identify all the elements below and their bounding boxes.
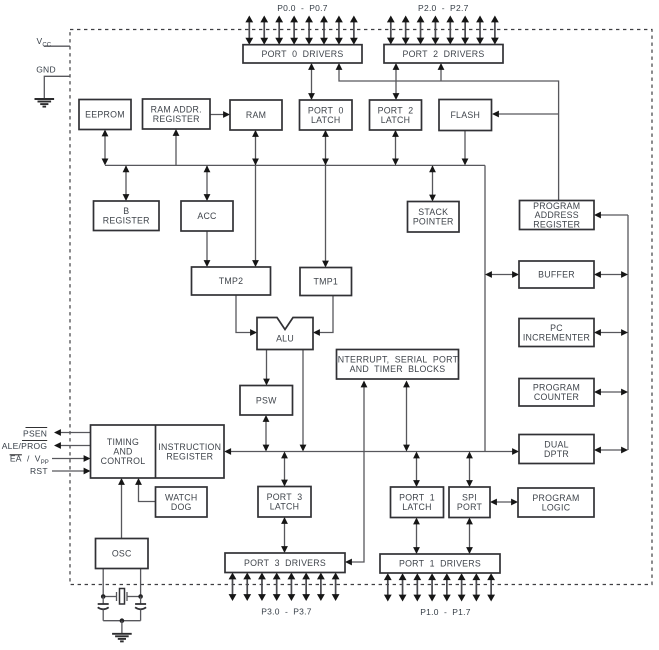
svg-text:INCREMENTER: INCREMENTER <box>523 332 590 342</box>
svg-text:LATCH: LATCH <box>270 502 299 512</box>
svg-text:INTERRUPT, SERIAL PORT,: INTERRUPT, SERIAL PORT, <box>335 355 460 365</box>
svg-text:PORT 0: PORT 0 <box>308 106 344 116</box>
svg-text:PORT 2: PORT 2 <box>378 106 414 116</box>
svg-text:RST: RST <box>30 466 48 476</box>
svg-text:P0.0 - P0.7: P0.0 - P0.7 <box>277 3 328 13</box>
svg-text:PORT 0 DRIVERS: PORT 0 DRIVERS <box>261 49 343 59</box>
svg-text:REGISTER: REGISTER <box>533 220 580 230</box>
svg-text:PSEN: PSEN <box>23 428 47 438</box>
svg-text:REGISTER: REGISTER <box>166 451 213 461</box>
svg-text:PORT 1 DRIVERS: PORT 1 DRIVERS <box>399 559 481 569</box>
svg-text:B: B <box>123 206 129 216</box>
svg-text:WATCH: WATCH <box>165 492 198 502</box>
svg-text:LATCH: LATCH <box>402 502 431 512</box>
svg-text:PORT 3 DRIVERS: PORT 3 DRIVERS <box>244 558 326 568</box>
svg-text:ACC: ACC <box>197 211 217 221</box>
svg-text:AND: AND <box>113 447 132 457</box>
svg-text:RAM: RAM <box>246 110 266 120</box>
svg-text:OSC: OSC <box>112 549 132 559</box>
svg-text:FLASH: FLASH <box>450 110 480 120</box>
svg-text:P1.0 - P1.7: P1.0 - P1.7 <box>420 607 471 617</box>
svg-text:EA / VPP: EA / VPP <box>10 454 49 466</box>
svg-text:P3.0 - P3.7: P3.0 - P3.7 <box>261 607 312 617</box>
svg-text:DUAL: DUAL <box>544 439 568 449</box>
svg-text:CONTROL: CONTROL <box>101 456 146 466</box>
svg-text:LATCH: LATCH <box>381 115 410 125</box>
svg-text:PORT 3: PORT 3 <box>267 492 303 502</box>
svg-text:VCC: VCC <box>37 36 52 49</box>
svg-text:RAM ADDR.: RAM ADDR. <box>151 105 202 115</box>
svg-text:PORT 1: PORT 1 <box>399 493 435 503</box>
svg-text:PROGRAM: PROGRAM <box>532 493 579 503</box>
svg-text:LOGIC: LOGIC <box>542 502 571 512</box>
svg-text:BUFFER: BUFFER <box>538 270 575 280</box>
svg-text:TMP1: TMP1 <box>314 277 338 287</box>
svg-text:GND: GND <box>36 65 56 75</box>
svg-text:PORT: PORT <box>457 502 483 512</box>
svg-text:EEPROM: EEPROM <box>85 110 125 120</box>
svg-text:POINTER: POINTER <box>413 217 454 227</box>
svg-text:REGISTER: REGISTER <box>153 114 200 124</box>
svg-text:PORT 2 DRIVERS: PORT 2 DRIVERS <box>402 49 484 59</box>
svg-text:SPI: SPI <box>462 493 477 503</box>
svg-text:AND TIMER BLOCKS: AND TIMER BLOCKS <box>350 364 446 374</box>
svg-text:INSTRUCTION: INSTRUCTION <box>158 442 221 452</box>
svg-text:REGISTER: REGISTER <box>103 216 150 226</box>
svg-text:COUNTER: COUNTER <box>534 392 579 402</box>
svg-text:TMP2: TMP2 <box>219 276 243 286</box>
svg-text:PSW: PSW <box>256 395 277 405</box>
svg-text:P2.0 - P2.7: P2.0 - P2.7 <box>418 3 469 13</box>
svg-text:DPTR: DPTR <box>544 449 569 459</box>
svg-text:DOG: DOG <box>171 502 192 512</box>
svg-text:PC: PC <box>550 323 563 333</box>
svg-text:ALU: ALU <box>276 334 294 344</box>
svg-text:ALE/PROG: ALE/PROG <box>2 441 47 451</box>
svg-text:STACK: STACK <box>418 207 448 217</box>
svg-text:LATCH: LATCH <box>311 115 340 125</box>
svg-text:TIMING: TIMING <box>107 437 139 447</box>
svg-text:PROGRAM: PROGRAM <box>533 383 580 393</box>
